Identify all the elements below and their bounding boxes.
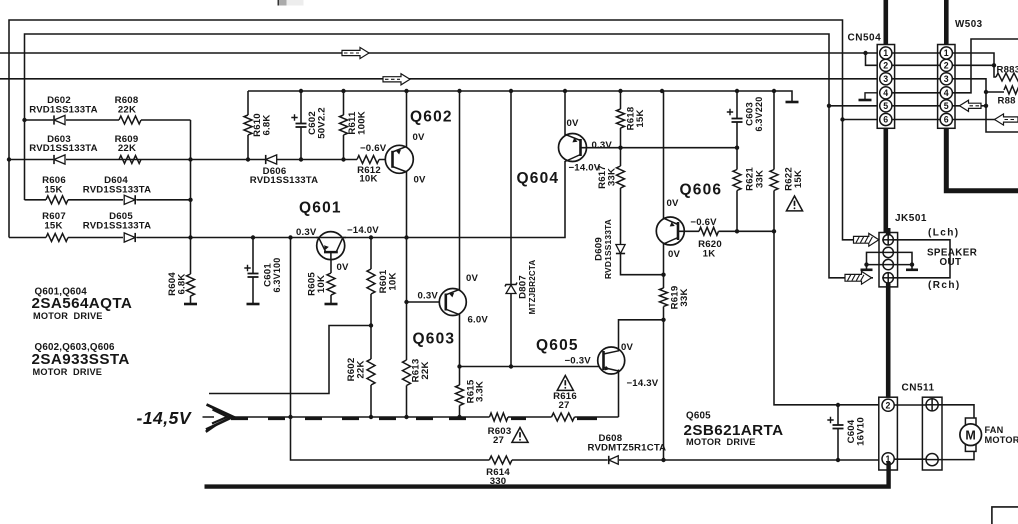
svg-text:27: 27 (493, 435, 504, 446)
resistor R617 (617, 166, 625, 188)
label CN504 (848, 33, 882, 44)
label R601 (378, 269, 399, 293)
svg-text:MOTOR: MOTOR (985, 435, 1018, 445)
svg-text:6.0V: 6.0V (468, 314, 489, 325)
scan artifact grey block (278, 0, 303, 6)
svg-text:Q601: Q601 (299, 200, 342, 217)
label Rch (928, 280, 961, 291)
svg-text:−14.3V: −14.3V (627, 378, 659, 389)
connector W503 body (938, 45, 955, 129)
label R609 (115, 134, 139, 154)
svg-text:-14,5V: -14,5V (137, 408, 192, 428)
wire step from -14.5V area (209, 326, 371, 394)
wire R620 row (678, 230, 774, 232)
svg-text:6.8K: 6.8K (262, 114, 273, 135)
wire CN504 pin5 row (829, 105, 880, 107)
wire stub CN504 pin1-pin2 link (866, 53, 880, 65)
label -0.6V Q606 (690, 217, 717, 228)
diode D608 (609, 456, 619, 464)
label R603 (488, 426, 512, 446)
resistor R609 (119, 156, 141, 164)
hollow arrow on bus 3 (342, 47, 369, 58)
node bus x511 (509, 89, 513, 93)
wire row3 (25, 199, 191, 201)
connector CN504 body (877, 45, 894, 129)
svg-text:0V: 0V (413, 132, 426, 143)
label R611 (347, 111, 368, 135)
hollow arrow W503 pin5 (960, 100, 982, 111)
resistor R608 (119, 116, 141, 124)
connector CN504 pins (880, 47, 892, 126)
label 0V Q603 (466, 273, 479, 284)
ground below R604 (184, 303, 197, 306)
label C604 (846, 417, 867, 446)
node row4 x290.5 (288, 235, 292, 239)
label 0V Q601 (337, 262, 350, 273)
resistor R604 (187, 274, 195, 296)
resistor R610 (244, 115, 252, 135)
hollow arrow W503 pin6 (995, 114, 1018, 125)
label Q601 (299, 200, 342, 217)
svg-text:1: 1 (883, 48, 888, 58)
warning triangle near R603 (512, 428, 528, 443)
resistor R622 (770, 170, 778, 191)
wire -14.5V line (228, 416, 619, 418)
resistor R606 (46, 196, 68, 204)
node row4 x190.5 (188, 235, 192, 239)
transistor Q602 (385, 145, 413, 173)
label R883 (997, 65, 1018, 76)
svg-text:FAN: FAN (985, 425, 1004, 435)
node C604 top (836, 403, 840, 407)
wire column Q603 (459, 91, 461, 417)
diode D603 (54, 155, 65, 164)
wire JK501 pins2-3 left bracket (867, 252, 884, 268)
svg-text:MOTOR DRIVE: MOTOR DRIVE (33, 367, 103, 377)
svg-text:27: 27 (558, 400, 569, 411)
ground below C601 (247, 303, 260, 306)
wire W503 pin3 loop (952, 79, 1018, 132)
transistor Q604 (559, 134, 587, 162)
label 0V Q602 bottom (414, 174, 427, 185)
resistor R88x (1004, 86, 1018, 94)
warning triangle above R616 (557, 376, 573, 391)
label group Q602 Q603 Q606 (32, 342, 130, 377)
svg-text:D807: D807 (517, 275, 528, 299)
svg-text:0V: 0V (667, 198, 680, 209)
resistor R612 (357, 156, 379, 164)
node W503 pin3 junction (984, 90, 988, 94)
label -0.6V Q602 (360, 143, 387, 154)
wire fan motor minus (938, 452, 974, 460)
svg-text:CN511: CN511 (902, 383, 935, 394)
wire W503 pin4 loop (952, 39, 1018, 93)
dashes on -14.5V line (231, 417, 597, 420)
label D604 (83, 175, 152, 196)
label D608 (588, 433, 667, 454)
wire column R617 D609 (621, 148, 664, 275)
resistor R601 (367, 269, 375, 294)
wire Q602 collector (406, 91, 408, 147)
label Q603 (413, 331, 456, 348)
label D605 (83, 211, 152, 232)
node Q605 collector junction (661, 318, 665, 322)
label 0V Q605 (621, 342, 634, 353)
node JK501 left bracket (864, 262, 868, 266)
wire W503 pin5 row (952, 105, 986, 107)
warning triangle near R622 (786, 196, 802, 211)
label R622 (783, 167, 804, 191)
svg-text:RVD1SS133TA: RVD1SS133TA (29, 104, 98, 115)
label D807 (517, 260, 537, 315)
label 0V Q602 top (413, 132, 426, 143)
ground JK501 left (861, 268, 873, 271)
node bus x774 (772, 89, 776, 93)
svg-text:2: 2 (886, 400, 891, 410)
wire column R618 (620, 91, 622, 148)
label R618 (625, 106, 646, 130)
node x371 step junction (369, 323, 373, 327)
hatched arrow JK501 Rch (845, 271, 872, 284)
svg-text:22K: 22K (420, 361, 431, 379)
svg-text:1K: 1K (703, 248, 716, 259)
label 0V Q606 top (667, 198, 680, 209)
node bus x565 (563, 89, 567, 93)
wire top bus 2 with left drop to row3 and right drop to JK501 Rch (25, 34, 874, 278)
ground JK501 right (906, 268, 918, 271)
node row3 right (188, 198, 192, 202)
svg-text:Q603: Q603 (413, 331, 456, 348)
svg-text:RVD1SS133TA: RVD1SS133TA (83, 185, 152, 196)
node bus x737 (735, 89, 739, 93)
label R88x (998, 96, 1017, 107)
wire row1 (25, 119, 191, 121)
wire Q605 collector (619, 320, 664, 352)
node CN504 pin6 junction (840, 117, 844, 121)
wire fan motor plus (938, 405, 974, 418)
svg-text:3: 3 (883, 74, 888, 84)
svg-text:R88: R88 (998, 96, 1017, 107)
svg-text:1: 1 (944, 48, 949, 58)
label Q605 (536, 337, 579, 354)
wire column x292 (291, 238, 490, 461)
svg-text:22K: 22K (118, 143, 136, 154)
wire column R611 (343, 91, 345, 160)
resistor R615 (456, 385, 464, 406)
connector CN504 thick bus bottom (883, 126, 888, 236)
label R615 (466, 379, 486, 403)
svg-text:−14.0V: −14.0V (569, 162, 601, 173)
svg-text:2SA564AQTA: 2SA564AQTA (32, 295, 133, 312)
diode D605 (124, 233, 135, 242)
wire column C601 (252, 238, 254, 304)
wire column R605 (330, 260, 332, 304)
wire Q606 emitter down (663, 244, 665, 460)
svg-text:6.3V100: 6.3V100 (272, 258, 282, 293)
label R620 (698, 239, 722, 259)
label R619 (670, 286, 691, 310)
node Q603 base junction (404, 300, 408, 304)
svg-text:0V: 0V (621, 342, 634, 353)
wire JK501 speaker bracket (893, 240, 950, 278)
label JK501 (895, 213, 927, 224)
node bus x406.5 (404, 89, 408, 93)
svg-text:22K: 22K (118, 104, 136, 115)
svg-text:0V: 0V (466, 273, 479, 284)
node R614 row C604 (836, 458, 840, 462)
svg-text:0.3V: 0.3V (592, 140, 613, 151)
label R608 (115, 95, 139, 115)
svg-text:0V: 0V (567, 118, 580, 129)
svg-text:6.8K: 6.8K (177, 273, 188, 294)
node CN504 pin5 junction (827, 104, 831, 108)
wire main supply bus (248, 91, 792, 101)
node row4 x406.5 (404, 235, 408, 239)
zener D807 (505, 283, 517, 294)
diode D602 (54, 115, 65, 124)
partial block bottom right (992, 507, 1018, 524)
wire column C602 (300, 91, 302, 160)
resistor R620 (699, 227, 718, 235)
node -14.5V line x290.5 (288, 415, 292, 419)
wire CN504 pin6 row (843, 119, 880, 121)
svg-text:5: 5 (944, 101, 949, 111)
label -14.0V Q601 (347, 225, 379, 236)
node row2 left (7, 157, 11, 161)
svg-text:M: M (965, 428, 976, 442)
node Q604 base x737 (735, 146, 739, 150)
svg-text:JK501: JK501 (895, 213, 927, 224)
label CN511 (902, 383, 935, 394)
svg-text:RVDMTZ5R1CTA: RVDMTZ5R1CTA (588, 442, 667, 453)
resistor R611 (340, 115, 348, 135)
wire row4 (9, 161, 565, 238)
svg-text:−0.6V: −0.6V (360, 143, 387, 154)
svg-text:10K: 10K (316, 275, 327, 293)
label group Q601 Q604 (32, 287, 133, 322)
wire bus 3 to CN504 pin1 (0, 52, 880, 54)
svg-text:6: 6 (944, 115, 949, 125)
connector JK501 pins (882, 235, 894, 283)
svg-text:50V2.2: 50V2.2 (316, 107, 327, 139)
svg-text:2: 2 (883, 60, 888, 70)
transistor Q601 (316, 232, 346, 260)
resistor R607 (46, 234, 68, 242)
wire Q602 emitter down (406, 171, 408, 417)
svg-text:CN504: CN504 (848, 33, 882, 44)
node bus x343.5 (341, 89, 345, 93)
transistor Q605 (598, 347, 625, 374)
svg-text:R883: R883 (997, 65, 1018, 76)
node -14.5V line x406.5 (404, 415, 408, 419)
transistor Q606 (656, 217, 684, 245)
label R607 (42, 211, 66, 232)
svg-text:2: 2 (944, 60, 949, 70)
resistor R621 (733, 170, 741, 191)
label R612 (357, 165, 381, 185)
node -14.5V line x371 (369, 415, 373, 419)
node row2 x190 (188, 157, 192, 161)
label C603 (744, 97, 764, 132)
node W503 pin5 junction (984, 104, 988, 108)
wire Q603 base (407, 301, 447, 303)
node W503 pin2 junction (992, 63, 996, 67)
svg-text:0V: 0V (337, 262, 350, 273)
label R602 (346, 358, 367, 382)
fan motor (960, 418, 982, 451)
svg-text:6: 6 (883, 115, 888, 125)
label 0.3V Q604 (592, 140, 613, 151)
node R614 row x662 (661, 458, 665, 462)
label C601 (262, 258, 282, 293)
svg-text:3.3K: 3.3K (475, 381, 486, 402)
label W503 (955, 19, 983, 30)
wire W503 pin2 to R883 (952, 65, 996, 77)
svg-text:RVD1SS133TA: RVD1SS133TA (250, 175, 319, 186)
node row4 x253 (251, 235, 255, 239)
svg-text:15K: 15K (44, 185, 62, 196)
svg-text:0.3V: 0.3V (296, 227, 317, 238)
label R610 (252, 113, 273, 137)
svg-text:−0.3V: −0.3V (565, 355, 592, 366)
wire column C603 R621 (736, 91, 738, 231)
svg-text:−14.0V: −14.0V (347, 225, 379, 236)
wire top bus 1 with left drop to row4 and right drop to JK501 Lch (9, 20, 878, 240)
svg-text:RVD1SS133TA: RVD1SS133TA (29, 143, 98, 154)
wire Q605 emitter (618, 370, 620, 418)
wire column R622 (774, 91, 882, 405)
connector CN511 left pins (882, 399, 894, 465)
connector JK501 thick bus in (886, 228, 891, 236)
svg-text:5: 5 (883, 101, 888, 111)
label R604 (167, 272, 188, 296)
label Q602 (410, 109, 453, 126)
svg-text:0V: 0V (414, 174, 427, 185)
connector CN504 thick bus top (883, 0, 888, 48)
svg-text:MOTOR DRIVE: MOTOR DRIVE (686, 437, 756, 447)
svg-text:2SA933SSTA: 2SA933SSTA (32, 351, 130, 368)
resistor R605 (327, 273, 335, 295)
connector W503 pins (940, 47, 952, 126)
capacitor C602 (291, 114, 306, 127)
node bus x620.5 (618, 89, 622, 93)
node JK501 right bracket (910, 262, 914, 266)
resistor R883 (996, 73, 1018, 81)
resistor R603 (490, 413, 508, 421)
wire Q604 base row (581, 147, 738, 149)
svg-text:15K: 15K (44, 221, 62, 232)
wire column x190 (190, 120, 192, 303)
label D602 (29, 95, 98, 115)
resistor R613 (403, 360, 411, 385)
svg-text:4: 4 (944, 88, 949, 98)
svg-text:4: 4 (883, 88, 888, 98)
svg-text:Q606: Q606 (680, 182, 723, 199)
wire Q606 collector (663, 91, 665, 218)
svg-text:33K: 33K (607, 168, 618, 186)
svg-text:3: 3 (944, 74, 949, 84)
label R621 (745, 167, 766, 191)
resistor R616 (552, 413, 575, 421)
wire bus 4 to CN504 pin3 (0, 78, 880, 80)
wire R614 row (512, 459, 882, 461)
ground CN504 pin4 (859, 93, 878, 100)
node Q606 emitter junction (661, 273, 665, 277)
connector CN511 left body (879, 397, 898, 470)
label 6.0V Q603 (468, 314, 489, 325)
label -0.3V Q605 (565, 355, 592, 366)
connector CN511 right body (922, 397, 942, 470)
svg-text:RVD1SS133TA: RVD1SS133TA (83, 221, 152, 232)
label SPEAKER OUT (927, 248, 977, 268)
label R606 (42, 175, 66, 196)
label FAN MOTOR (985, 425, 1018, 445)
svg-text:MTZJBR2CTA: MTZJBR2CTA (528, 260, 537, 315)
label 0V Q604 (567, 118, 580, 129)
svg-text:100K: 100K (357, 111, 368, 135)
svg-text:−0.6V: −0.6V (690, 217, 717, 228)
label group Q605 (684, 411, 784, 447)
svg-text:Q604: Q604 (517, 170, 560, 187)
label C602 (307, 107, 327, 139)
wire row to Q605 base (460, 366, 604, 368)
wires CN504 to W503 (892, 53, 940, 120)
hollow arrow on bus 4 (383, 74, 410, 85)
wire column R601 R602 (370, 238, 372, 418)
svg-text:MOTOR DRIVE: MOTOR DRIVE (33, 311, 103, 321)
svg-text:22K: 22K (356, 360, 367, 378)
wires CN511 between (894, 405, 926, 459)
svg-text:0.3V: 0.3V (418, 290, 439, 301)
node row2 x248 (246, 157, 250, 161)
node row2 x301 (299, 157, 303, 161)
label R605 (306, 272, 327, 296)
diode D609 (616, 245, 625, 254)
label Lch (928, 228, 959, 239)
wire row2 (9, 159, 393, 161)
resistor R602 (367, 359, 375, 385)
wire W503 pin1 loop (952, 53, 994, 65)
label Q604 (517, 170, 560, 187)
node bus x662 (660, 89, 664, 93)
wire JK501 pins2-3 right bracket (893, 252, 912, 268)
label R614 (486, 467, 510, 487)
node R615 top junction (457, 364, 461, 368)
svg-text:(Lch): (Lch) (928, 228, 959, 239)
handwritten label -14,5V (137, 408, 192, 428)
svg-text:33K: 33K (754, 170, 765, 188)
label 0.3V Q601 (296, 227, 317, 238)
svg-text:16V10: 16V10 (856, 417, 867, 446)
label R616 (553, 391, 577, 411)
svg-text:33K: 33K (679, 288, 690, 306)
label 0.3V Q603 (418, 290, 439, 301)
node row2 x343.5 (341, 157, 345, 161)
svg-text:Q602: Q602 (410, 109, 453, 126)
resistor R614 (489, 456, 512, 464)
svg-text:OUT: OUT (940, 257, 962, 268)
svg-text:Q605: Q605 (686, 411, 711, 422)
svg-text:10K: 10K (359, 174, 377, 185)
node row4 x371 (369, 235, 373, 239)
hatched arrow JK501 Lch (854, 233, 879, 246)
svg-text:RVD1SS133TA: RVD1SS133TA (603, 219, 613, 279)
ground below R605 (325, 303, 338, 306)
node bus x459.5 (457, 89, 461, 93)
node bus x301 (299, 89, 303, 93)
node R620 x737 (735, 229, 739, 233)
node on bus 3 (863, 51, 867, 55)
